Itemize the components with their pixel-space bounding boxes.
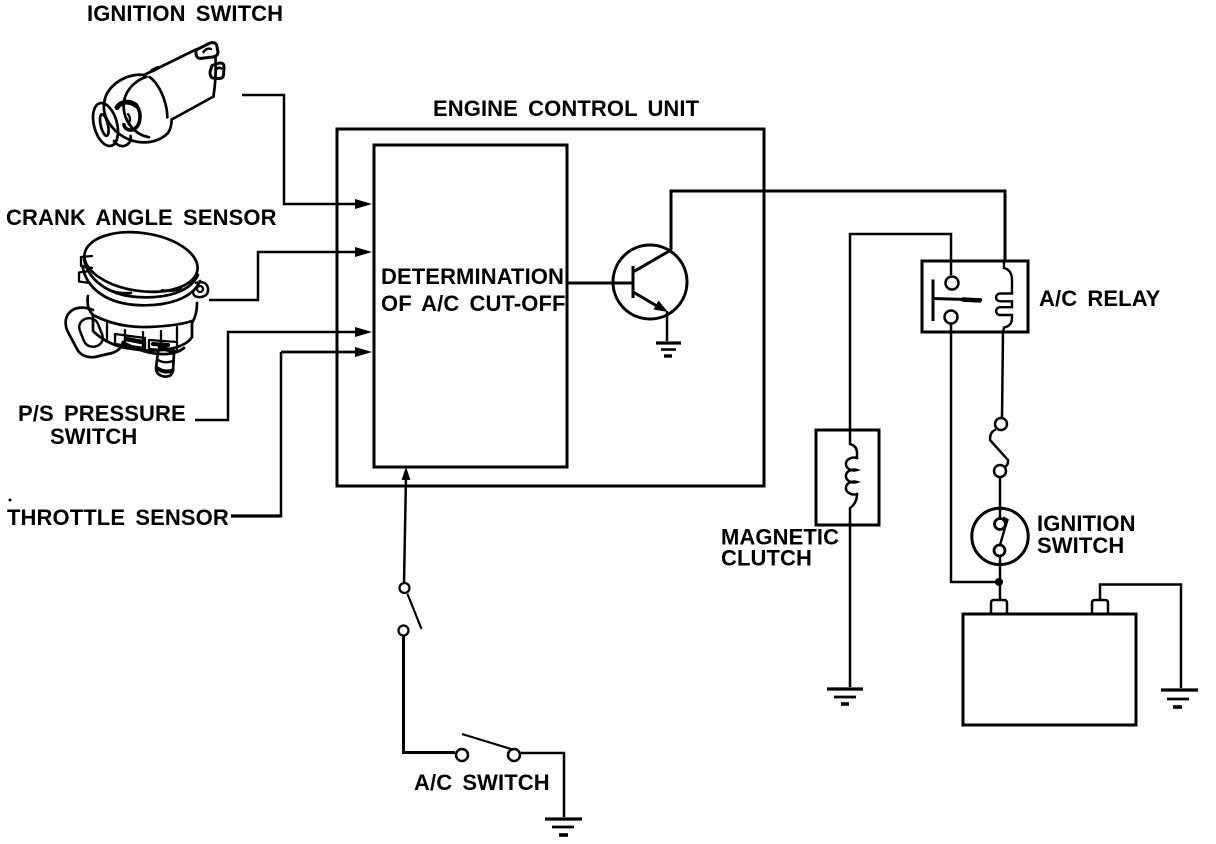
arrowhead input 2 <box>355 247 372 257</box>
svg-text:P/S PRESSURE: P/S PRESSURE <box>18 401 186 426</box>
A/C relay box <box>922 261 1028 332</box>
thermo switch blade <box>408 594 422 629</box>
wire: P/S pressure switch to ECU input 3 <box>195 332 358 420</box>
svg-text:SWITCH: SWITCH <box>1037 533 1124 558</box>
wire: A/C switch to ground <box>520 753 564 817</box>
wire: determination box to thermo switch <box>404 476 406 583</box>
arrowhead input 3 <box>355 327 372 337</box>
svg-text:A/C SWITCH: A/C SWITCH <box>414 770 550 795</box>
svg-text:SWITCH: SWITCH <box>50 424 137 449</box>
relay contact bar <box>933 280 982 322</box>
arrowhead input 4 <box>355 347 372 357</box>
battery terminal - <box>1092 600 1108 614</box>
crank angle sensor pictorial drawing <box>66 225 208 376</box>
ground (transistor emitter) <box>656 343 681 356</box>
ignition switch circle <box>972 508 1028 564</box>
printing speck <box>9 499 12 502</box>
arrowhead input 1 <box>355 199 372 209</box>
magnetic clutch coil <box>846 430 857 525</box>
svg-text:DETERMINATION: DETERMINATION <box>381 264 564 289</box>
wire: battery negative to ground <box>1100 585 1181 689</box>
junction node <box>995 578 1003 586</box>
magnetic clutch box <box>816 430 879 525</box>
wire through ignition switch to junction <box>999 554 1002 599</box>
ignition switch pictorial drawing <box>89 43 224 149</box>
wire: switch to A/C switch <box>404 636 456 753</box>
wire: relay coil to fuse <box>1002 332 1003 418</box>
wire: emitter to ground <box>666 311 669 341</box>
wire: collector to A/C relay coil <box>671 191 1005 262</box>
A/C switch contact left <box>456 749 468 761</box>
ECU outer box <box>337 129 764 486</box>
svg-text:OF A/C CUT-OFF: OF A/C CUT-OFF <box>381 291 566 316</box>
svg-text:CLUTCH: CLUTCH <box>721 546 812 571</box>
wire: ignition switch to ECU input 1 <box>242 95 358 204</box>
wire: magnetic clutch to ground <box>849 525 852 687</box>
determination inner box <box>374 145 567 467</box>
ground (magnetic clutch) <box>827 689 863 704</box>
wire: fuse to ignition switch symbol <box>999 477 1002 518</box>
battery terminal + <box>991 600 1007 614</box>
relay contact pin bottom <box>945 311 958 324</box>
wire: relay contact to junction <box>951 324 996 582</box>
svg-text:A/C RELAY: A/C RELAY <box>1039 286 1161 311</box>
transistor Q1 <box>613 245 687 319</box>
ignition switch symbol contacts <box>995 519 1006 530</box>
svg-text:ENGINE CONTROL UNIT: ENGINE CONTROL UNIT <box>433 96 700 121</box>
relay coil <box>996 261 1012 332</box>
svg-text:IGNITION SWITCH: IGNITION SWITCH <box>87 1 283 26</box>
fuse <box>990 418 1008 477</box>
thermo switch contact bottom <box>399 626 409 636</box>
svg-text:CRANK ANGLE SENSOR: CRANK ANGLE SENSOR <box>6 205 277 230</box>
A/C switch contact right <box>508 749 520 761</box>
wire: throttle sensor to ECU input 4 <box>231 352 358 518</box>
ignition switch blade <box>1000 518 1008 546</box>
transistor Q1 base wire <box>567 282 633 285</box>
wire: crank angle sensor to ECU input 2 <box>209 252 358 300</box>
transistor emitter arrowhead <box>654 301 669 313</box>
relay contact pin top <box>946 277 959 290</box>
arrowhead into determination box bottom <box>402 467 411 480</box>
thermo switch contact top <box>400 583 410 593</box>
battery <box>963 614 1136 725</box>
svg-text:THROTTLE SENSOR: THROTTLE SENSOR <box>7 505 229 530</box>
ground (battery) <box>1161 690 1198 707</box>
A/C switch blade <box>462 734 511 749</box>
wire: magnetic clutch to relay contact <box>850 234 951 430</box>
ground (A/C switch) <box>545 819 582 835</box>
